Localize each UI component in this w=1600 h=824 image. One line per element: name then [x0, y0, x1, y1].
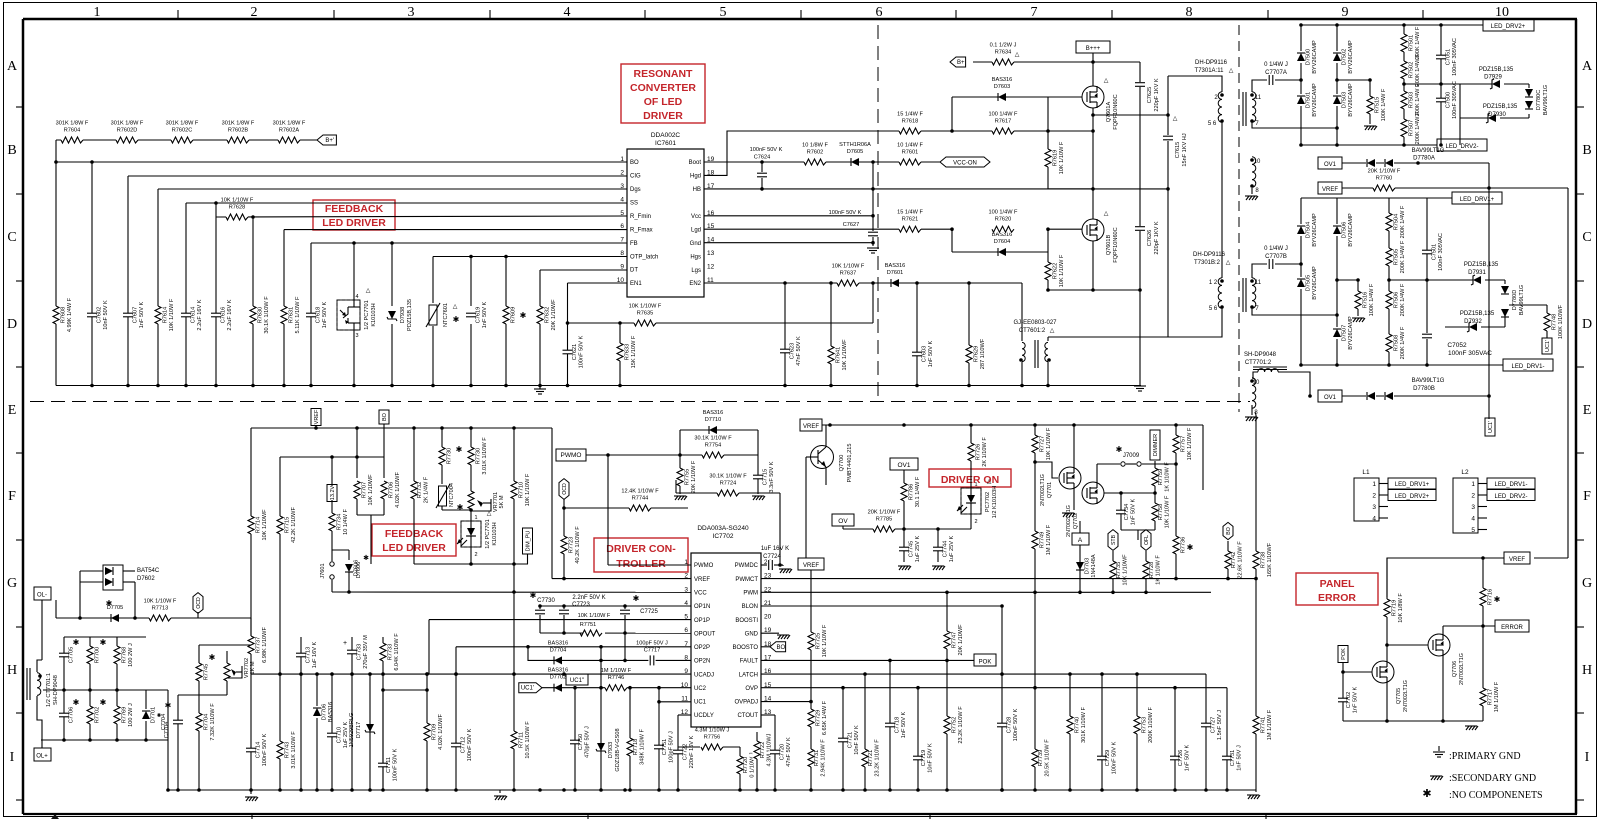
- diode D7501: [1297, 94, 1305, 106]
- svg-text:4: 4: [1471, 516, 1475, 523]
- svg-text:20K 1/10W F: 20K 1/10W F: [1368, 169, 1401, 175]
- svg-text:CIG: CIG: [630, 174, 641, 180]
- svg-text:OCD: OCD: [196, 597, 202, 609]
- svg-text:BLON: BLON: [742, 604, 758, 610]
- svg-text:△: △: [1104, 78, 1109, 84]
- capacitor C7721: [842, 688, 844, 790]
- svg-text:8: 8: [1186, 5, 1193, 20]
- resistor R7602A: [278, 137, 300, 144]
- svg-text:H: H: [1582, 663, 1592, 678]
- svg-text:1nF 50V K: 1nF 50V K: [1353, 687, 1359, 714]
- svg-text:4.99K 1/4W F: 4.99K 1/4W F: [67, 297, 73, 332]
- svg-text:BYV26CAMP: BYV26CAMP: [1312, 83, 1318, 117]
- svg-text:R7614: R7614: [163, 307, 169, 323]
- svg-text:100nF 50V K: 100nF 50V K: [579, 335, 585, 368]
- diode block BAT54C D7602: [103, 565, 123, 590]
- svg-text:△: △: [487, 511, 492, 517]
- svg-text:R7740: R7740: [1075, 717, 1081, 733]
- wire Q7702 gate: [1104, 492, 1121, 494]
- svg-text:1/2 PC7701: 1/2 PC7701: [485, 519, 491, 549]
- svg-text:C7724: C7724: [763, 554, 781, 560]
- opto-coupler PC7701 LED side: [470, 511, 472, 521]
- svg-text:200K 1/4W F: 200K 1/4W F: [1400, 205, 1406, 238]
- svg-text:GND: GND: [745, 631, 759, 637]
- capacitor C7626: [1135, 226, 1145, 228]
- red label FEEDBACK LED DRIVER (top): [313, 200, 395, 230]
- svg-text:Q7705: Q7705: [1396, 688, 1402, 704]
- net flag B+ supply: [950, 57, 966, 67]
- capacitor C7704: [177, 695, 179, 790]
- svg-text:6.98K 1/10WF: 6.98K 1/10WF: [262, 627, 268, 663]
- thermistor NTC7004: [438, 486, 447, 506]
- svg-text:✱: ✱: [1494, 595, 1501, 604]
- svg-text:R7758: R7758: [1158, 504, 1164, 520]
- svg-text:EN2: EN2: [689, 281, 701, 287]
- svg-text:BO: BO: [630, 160, 639, 166]
- resistor R7713: [149, 615, 171, 622]
- zener diode D7931: [1473, 275, 1485, 285]
- resistor R7760: [1373, 185, 1395, 192]
- svg-text:10K 1/10W F: 10K 1/10W F: [1046, 427, 1052, 460]
- secondary ground Q7701: [1062, 512, 1074, 514]
- svg-text:3.01K 1/10W F: 3.01K 1/10W F: [291, 731, 297, 769]
- svg-text:2K 1/4W F: 2K 1/4W F: [424, 476, 430, 503]
- net flag VREF lower: [798, 558, 824, 570]
- svg-text:4.02K 1/10WF: 4.02K 1/10WF: [438, 714, 444, 750]
- svg-text:3.01K 1/10W F: 3.01K 1/10W F: [482, 437, 488, 475]
- svg-text:LED_DRV2-: LED_DRV2-: [1446, 144, 1479, 150]
- svg-text:C7720: C7720: [780, 744, 786, 760]
- capacitor C7602: [91, 306, 93, 324]
- svg-text:2: 2: [1471, 493, 1475, 500]
- resistor R7724: [675, 480, 677, 493]
- svg-text:✱: ✱: [100, 638, 107, 647]
- svg-text:BO: BO: [776, 645, 785, 651]
- wire source line: [1048, 289, 1140, 291]
- svg-text:R7731: R7731: [814, 750, 820, 766]
- wire B+ sense chain: [56, 139, 317, 141]
- svg-text:C7718: C7718: [895, 717, 901, 733]
- svg-text:BYV26CAMP: BYV26CAMP: [1348, 83, 1354, 117]
- wire UCADJ long bus: [251, 673, 691, 675]
- svg-text:C7603: C7603: [922, 346, 928, 362]
- svg-text:LED_DRV1+: LED_DRV1+: [1460, 197, 1495, 203]
- svg-text:FQPF10N60C: FQPF10N60C: [1113, 227, 1119, 262]
- svg-text:B+++: B+++: [1086, 46, 1101, 52]
- net flag OL-: [34, 587, 51, 600]
- net flag OV1 driver: [890, 458, 918, 470]
- capacitor C7618: [310, 306, 312, 324]
- svg-text:△: △: [1226, 260, 1231, 266]
- svg-text:✱: ✱: [165, 701, 172, 710]
- svg-text:B: B: [1582, 143, 1591, 158]
- svg-text:1.5nF 50V J: 1.5nF 50V J: [1217, 710, 1223, 740]
- op-amp U IC7601 DDA002C: [627, 149, 704, 297]
- svg-text:R7621: R7621: [902, 217, 918, 223]
- resistor R7727: [1034, 425, 1036, 462]
- red label PANEL ERROR: [1296, 573, 1378, 605]
- svg-text:D7706: D7706: [322, 704, 328, 720]
- svg-text:R7738: R7738: [1261, 552, 1267, 568]
- svg-text:1: 1: [974, 482, 977, 488]
- svg-text:220pF 1KV K: 220pF 1KV K: [1154, 221, 1160, 255]
- svg-text:R7637: R7637: [840, 271, 856, 277]
- wire T7301B sec bottom: [1252, 307, 1337, 315]
- resistor R7710: [513, 428, 515, 592]
- capacitor C7722: [677, 735, 679, 790]
- resistor R7505: [1385, 248, 1394, 266]
- zener diode D7932: [1469, 322, 1481, 332]
- svg-text:Q7601B: Q7601B: [1106, 234, 1112, 255]
- resistor R7641: [830, 283, 832, 386]
- wire UC1 stub: [659, 701, 691, 703]
- wire Q7706 gate line: [1387, 644, 1428, 646]
- svg-text:C7624: C7624: [754, 155, 770, 161]
- svg-text:C7500: C7500: [1446, 92, 1452, 108]
- net flag B+: [317, 135, 336, 145]
- svg-text:R7722: R7722: [760, 742, 766, 758]
- resistor R7516: [1357, 280, 1359, 316]
- isolation dashed line at transformers: [1238, 25, 1240, 412]
- wire OVPADJ line: [761, 701, 811, 703]
- svg-text:FB: FB: [630, 241, 638, 247]
- svg-text:HB: HB: [693, 187, 701, 193]
- svg-text:C7614: C7614: [191, 307, 197, 323]
- net flag OCD left: [193, 593, 203, 614]
- resistor R7720: [739, 747, 741, 790]
- svg-text:POK: POK: [1341, 648, 1347, 660]
- resistor R7734: [331, 500, 333, 545]
- svg-text:42.2K 1/10WF: 42.2K 1/10WF: [291, 507, 297, 543]
- svg-text:1N4148A: 1N4148A: [1091, 554, 1097, 578]
- resistor R7737: [247, 636, 256, 654]
- secondary ground aux A: [1245, 195, 1257, 197]
- net flag VREF right: [800, 419, 822, 431]
- svg-text:23.2K 1/10W F: 23.2K 1/10W F: [875, 739, 881, 777]
- capacitor C7731: [1222, 756, 1233, 760]
- svg-text:PC7702: PC7702: [985, 492, 991, 512]
- net flag VREF top: [1318, 182, 1342, 194]
- resistor R7757: [1175, 425, 1177, 464]
- secondary ground R7515: [1364, 125, 1376, 127]
- svg-text:EN1: EN1: [630, 281, 642, 287]
- svg-text:Gnd: Gnd: [690, 241, 701, 247]
- svg-text:R7736: R7736: [1181, 537, 1187, 553]
- wire Lgd line: [704, 228, 952, 230]
- net flag BO boosto: [761, 646, 770, 648]
- net flag UC1' top: [1542, 338, 1552, 354]
- diode D7500: [1297, 51, 1305, 63]
- svg-text:D7938: D7938: [400, 307, 406, 323]
- svg-text:UCDLY: UCDLY: [694, 713, 714, 719]
- capacitor C7624: [761, 162, 763, 189]
- svg-text:GDZ18B-V-GS08: GDZ18B-V-GS08: [615, 728, 621, 771]
- svg-text:L2: L2: [1461, 469, 1469, 476]
- capacitor C7723: [563, 606, 565, 633]
- svg-text:CT7701:2: CT7701:2: [1245, 360, 1272, 366]
- resistor R7730b: [470, 428, 472, 493]
- svg-text:I: I: [1585, 750, 1590, 765]
- svg-text:R7760: R7760: [1376, 176, 1392, 182]
- svg-text:BOOSTO: BOOSTO: [732, 645, 758, 651]
- svg-text:R7717: R7717: [1488, 689, 1494, 705]
- wire OCD sense line: [56, 617, 251, 619]
- svg-text:LED_DRV1+: LED_DRV1+: [1395, 482, 1430, 488]
- svg-text:C7623: C7623: [790, 343, 796, 359]
- svg-text:2.2uF 16V K: 2.2uF 16V K: [197, 299, 203, 330]
- svg-text:D7602: D7602: [137, 576, 155, 582]
- svg-text:✱: ✱: [100, 698, 107, 707]
- svg-text:100pF 50V J: 100pF 50V J: [636, 640, 668, 646]
- wire PWMO net: [556, 449, 586, 461]
- svg-text:D7780D: D7780D: [1512, 290, 1518, 311]
- svg-text:DIM_PU: DIM_PU: [526, 531, 532, 552]
- svg-text:PWMCT: PWMCT: [735, 577, 758, 583]
- svg-text:BAS316: BAS316: [703, 410, 724, 416]
- svg-text:10K 1/8W F: 10K 1/8W F: [1398, 593, 1404, 623]
- svg-text:D7704: D7704: [550, 647, 566, 653]
- net flag DIM_PU: [523, 528, 533, 554]
- svg-text:R7744: R7744: [632, 496, 648, 502]
- svg-text:✱: ✱: [1116, 445, 1123, 454]
- svg-text:1nF 50V K: 1nF 50V K: [1185, 745, 1191, 772]
- svg-text:OFL: OFL: [1144, 535, 1150, 545]
- wire OV1 row A: [1342, 162, 1489, 164]
- diode D7507: [1333, 327, 1341, 339]
- svg-text:1uF 25V K: 1uF 25V K: [915, 536, 921, 563]
- svg-text:C7602: C7602: [97, 307, 103, 323]
- wire PWM line: [761, 591, 1211, 593]
- wire J7009 line: [1096, 464, 1098, 470]
- resistor R7702: [86, 706, 95, 724]
- svg-text:R7715: R7715: [285, 517, 291, 533]
- svg-text:C7717: C7717: [644, 647, 660, 653]
- diode D7605: [851, 158, 859, 166]
- svg-text::NO COMPONENETS: :NO COMPONENETS: [1449, 790, 1543, 801]
- svg-text:VCC-ON: VCC-ON: [953, 161, 977, 167]
- wire T7301A sec bottom: [1252, 122, 1337, 128]
- svg-text:BAV99LT1G: BAV99LT1G: [1543, 85, 1549, 116]
- svg-text:R7728: R7728: [1149, 562, 1155, 578]
- net flag UC1' mid: [519, 683, 542, 693]
- wire VREF row A: [1342, 187, 1489, 189]
- capacitor C7744: [937, 529, 939, 562]
- wire Q7701 gate: [1033, 460, 1037, 464]
- svg-text:R7735: R7735: [1116, 562, 1122, 578]
- secondary ground C7715: [752, 495, 764, 497]
- primary ground at snubber: [1134, 385, 1146, 387]
- wire pin3 Dgs bus: [158, 188, 627, 190]
- svg-text:10nF 50V K: 10nF 50V K: [928, 743, 934, 773]
- svg-text:Boot: Boot: [689, 160, 702, 166]
- svg-text:3: 3: [1471, 504, 1475, 511]
- svg-text:G: G: [1582, 576, 1592, 591]
- svg-text:R7746: R7746: [608, 675, 624, 681]
- svg-text:D7504: D7504: [1306, 222, 1312, 238]
- wire rectifier legs bank A: [1300, 25, 1302, 145]
- resistor R7604: [61, 137, 83, 144]
- svg-text:DH-DP9116: DH-DP9116: [1195, 60, 1228, 66]
- svg-text:UC1": UC1": [570, 678, 584, 684]
- net flag STB: [1108, 530, 1118, 551]
- capacitor C7734: [1120, 493, 1122, 530]
- svg-text:△: △: [1050, 328, 1055, 334]
- svg-text:15 1/4W F: 15 1/4W F: [897, 112, 923, 118]
- wire lower-left columns: [279, 674, 281, 790]
- svg-text:C7729: C7729: [1105, 750, 1111, 766]
- svg-text:C7616: C7616: [221, 307, 227, 323]
- svg-text:VCC: VCC: [694, 590, 707, 596]
- svg-text:470pF 50V J: 470pF 50V J: [585, 726, 591, 758]
- capacitor C7706: [59, 713, 70, 717]
- svg-text:BYV26CAMP: BYV26CAMP: [1348, 213, 1354, 247]
- svg-text:5.11K 1/10W F: 5.11K 1/10W F: [295, 296, 301, 333]
- wire OP2P line: [456, 646, 691, 648]
- svg-text:△: △: [1015, 52, 1020, 58]
- svg-text:D7780A: D7780A: [1413, 156, 1435, 162]
- svg-text:10K 1/10W F: 10K 1/10W F: [1165, 495, 1171, 528]
- svg-text:100nF 305VAC: 100nF 305VAC: [1452, 81, 1458, 119]
- svg-text:R7743: R7743: [285, 742, 291, 758]
- svg-text:C7625: C7625: [1147, 87, 1153, 103]
- svg-text:10K 1/10W F: 10K 1/10W F: [1059, 254, 1065, 287]
- net flag LED_DRV1- at L2: [1487, 478, 1535, 489]
- resistor R7759: [1154, 461, 1156, 493]
- svg-text:1K M: 1K M: [250, 661, 256, 674]
- svg-text:10K 1/10W F: 10K 1/10W F: [578, 613, 611, 619]
- resistor R7630: [252, 306, 254, 324]
- wire R7745 block: [178, 694, 227, 696]
- svg-text:10K 1/10W F: 10K 1/10W F: [221, 198, 254, 204]
- svg-text:0 1/4W J: 0 1/4W J: [1264, 246, 1288, 252]
- capacitor C7616: [215, 306, 217, 324]
- svg-text:200K 1/4W F: 200K 1/4W F: [1415, 53, 1421, 86]
- svg-text:PWMO: PWMO: [694, 563, 714, 569]
- svg-text:R7618: R7618: [902, 119, 918, 125]
- svg-text:1uF 16V K: 1uF 16V K: [761, 546, 789, 552]
- svg-text:PDZ15B,135: PDZ15B,135: [1483, 104, 1518, 110]
- secondary ground aux B: [1245, 416, 1257, 418]
- svg-text:D7605: D7605: [847, 149, 863, 155]
- svg-text:2: 2: [974, 519, 977, 525]
- diode D7503: [1333, 94, 1341, 106]
- resistor R7601: [899, 159, 921, 166]
- resistor R7508: [1385, 334, 1394, 352]
- resistor R7747: [946, 592, 948, 660]
- opto-coupler PC7701: [337, 300, 360, 330]
- svg-text:R7619: R7619: [1053, 150, 1059, 166]
- capacitor C7705: [59, 653, 70, 657]
- svg-text:100nF 50V K: 100nF 50V K: [1112, 741, 1118, 774]
- resistor R7758: [1154, 493, 1156, 530]
- svg-text:Hgd: Hgd: [690, 174, 701, 180]
- svg-text:200K 1/4W F: 200K 1/4W F: [1415, 111, 1421, 144]
- svg-text:J7009: J7009: [1123, 453, 1140, 459]
- svg-text:C7704: C7704: [164, 722, 170, 738]
- svg-text:R7622: R7622: [1053, 263, 1059, 279]
- svg-text:2.2nF 50V K: 2.2nF 50V K: [572, 595, 605, 601]
- wire C7627 column: [872, 162, 874, 243]
- wire pin6 R_Fmax bus: [284, 229, 627, 231]
- svg-text:F: F: [8, 489, 16, 504]
- resistor R7617: [952, 130, 1093, 132]
- zener diode D7717: [366, 724, 374, 732]
- svg-text:10K 1/10W F: 10K 1/10W F: [832, 264, 865, 270]
- capacitor C7724: [761, 564, 770, 566]
- primary/secondary isolation dashed boundary: [30, 401, 1250, 403]
- net flag VREF panel: [1504, 552, 1530, 564]
- svg-text:IC7702: IC7702: [713, 533, 734, 540]
- resistor R7744: [564, 507, 688, 509]
- resistor R7718: [629, 688, 631, 790]
- svg-text:Q7701: Q7701: [1047, 482, 1053, 498]
- svg-text:1M 1/10W F: 1M 1/10W F: [1494, 681, 1500, 712]
- svg-text:R7604: R7604: [64, 128, 80, 134]
- svg-text:D7931: D7931: [1468, 270, 1486, 276]
- svg-text:C7615: C7615: [1175, 142, 1181, 158]
- resistor R7637: [837, 280, 859, 287]
- svg-text:30.1K 1/10W F: 30.1K 1/10W F: [264, 296, 270, 334]
- svg-text:100pF 50V J: 100pF 50V J: [669, 731, 675, 763]
- secondary ground C7745: [898, 565, 910, 567]
- svg-text:R7753: R7753: [1142, 717, 1148, 733]
- resistor R7730a: [441, 428, 443, 484]
- svg-text:R7503: R7503: [1409, 92, 1415, 108]
- net flag OFL: [1141, 530, 1151, 551]
- svg-text:200K 1/4W F: 200K 1/4W F: [1400, 326, 1406, 359]
- svg-text:Q7706: Q7706: [1452, 661, 1458, 677]
- svg-text:11: 11: [1255, 95, 1262, 101]
- net flag UC1 quote: [566, 674, 588, 685]
- svg-text:R7713: R7713: [152, 606, 168, 612]
- svg-text:R7769: R7769: [122, 707, 128, 723]
- svg-text:C7726: C7726: [1178, 750, 1184, 766]
- svg-text:D7502: D7502: [1342, 49, 1348, 65]
- svg-text:C7733: C7733: [357, 644, 363, 660]
- resistor R7602C: [171, 137, 193, 144]
- svg-text:348K 1/10W F: 348K 1/10W F: [640, 729, 646, 765]
- capacitor C7619: [466, 313, 477, 317]
- wire LED_DRV1- bus: [1301, 364, 1503, 366]
- svg-text:OV1: OV1: [1324, 162, 1337, 168]
- resistor R7631: [283, 306, 285, 324]
- capacitor C7625: [1135, 82, 1145, 84]
- svg-text:✱: ✱: [457, 503, 464, 512]
- svg-text:K10103H: K10103H: [371, 303, 377, 326]
- resistor R7717: [1482, 626, 1484, 721]
- resistor R7507: [1400, 119, 1409, 137]
- svg-text:2N7002LT1G: 2N7002LT1G: [1459, 653, 1465, 685]
- svg-text:PANEL: PANEL: [1320, 578, 1355, 590]
- svg-text:1uF 16V K: 1uF 16V K: [312, 642, 318, 669]
- svg-text:R7641: R7641: [836, 347, 842, 363]
- wire rectifier legs bank B: [1300, 198, 1302, 365]
- wire FAULT line to POK: [761, 659, 974, 661]
- svg-text:20K 1/10W F: 20K 1/10W F: [868, 510, 901, 516]
- svg-text:C7731: C7731: [1230, 750, 1236, 766]
- svg-text:47nF 50V K: 47nF 50V K: [786, 737, 792, 767]
- svg-text:LED_DRV1-: LED_DRV1-: [1512, 364, 1545, 370]
- svg-text:VREF: VREF: [803, 424, 819, 430]
- svg-text:1/2 PC7701: 1/2 PC7701: [364, 300, 370, 330]
- svg-text:C7723: C7723: [572, 602, 590, 608]
- svg-text:R7733: R7733: [388, 644, 394, 660]
- svg-text:✱: ✱: [73, 698, 80, 707]
- diode D7710: [680, 429, 758, 431]
- resistor R7620: [992, 226, 1014, 233]
- resistor R7501: [1403, 25, 1405, 145]
- svg-text:D7505: D7505: [1306, 275, 1312, 291]
